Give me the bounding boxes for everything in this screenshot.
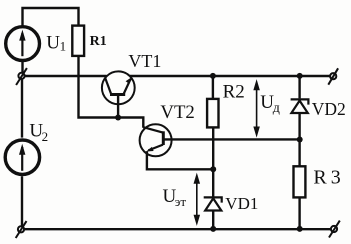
svg-text:R2: R2 — [223, 82, 245, 103]
svg-text:R3: R3 — [313, 167, 340, 189]
svg-text:R1: R1 — [90, 34, 107, 49]
svg-text:VD2: VD2 — [312, 99, 346, 119]
svg-text:VD1: VD1 — [225, 194, 258, 213]
svg-text:1: 1 — [60, 38, 67, 53]
svg-text:2: 2 — [42, 129, 49, 144]
svg-text:U: U — [46, 33, 60, 54]
svg-text:д: д — [273, 101, 280, 116]
svg-text:VT1: VT1 — [128, 51, 161, 71]
svg-text:эт: эт — [175, 194, 187, 209]
svg-text:VT2: VT2 — [160, 102, 194, 123]
